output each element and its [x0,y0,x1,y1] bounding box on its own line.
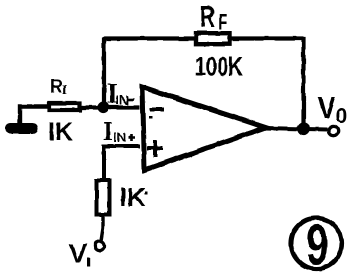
svg-text:V: V [318,89,336,125]
svg-text:I: I [103,117,113,146]
svg-text:IK: IK [48,118,73,146]
svg-text:R: R [50,75,63,98]
svg-text:IK: IK [120,182,146,212]
svg-text:R: R [200,0,215,34]
svg-text:100K: 100K [195,52,243,82]
svg-text:V: V [69,238,88,269]
svg-text:IN: IN [116,93,129,108]
svg-text:9: 9 [306,213,329,276]
svg-text:I: I [62,84,67,99]
svg-text:0: 0 [336,105,348,128]
svg-text:IN: IN [113,130,126,145]
svg-text:F: F [218,10,227,35]
